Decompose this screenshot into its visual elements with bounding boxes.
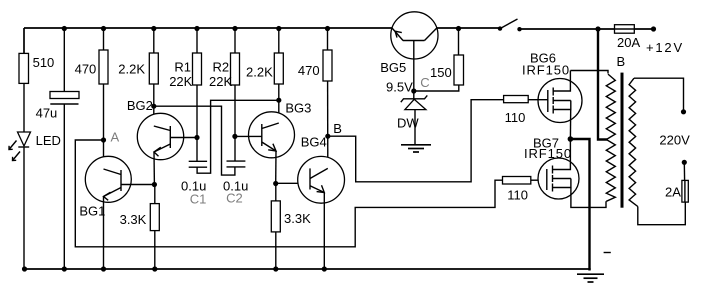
ground (zener) [401,144,431,146]
wire 470#2 to node B / BG4 collector [327,81,329,168]
junction BG2 base on R1 lead [194,135,199,140]
wire BG1 emitter to bottom rail [103,197,105,270]
junction dots on rails [62,26,67,31]
fuse 2A [682,180,688,202]
wire +12V rail to primary center tap (thick) [595,26,600,31]
wire rail to 2.2K [153,28,155,53]
svg-text:3.3K: 3.3K [284,211,311,226]
node N1 (BG6 source / BG7 drain) [568,136,574,142]
svg-text:510: 510 [33,55,55,70]
svg-text:9.5V: 9.5V [386,80,413,95]
wire BG2 base [170,137,197,139]
svg-text:DW: DW [397,116,419,131]
resistor 150 [454,55,464,85]
wire BG6 drain to transformer primary top [570,71,608,74]
ground (main) [577,273,604,275]
resistor 470 R3 [99,50,108,84]
wire BG5 base to node C [413,41,415,92]
svg-text:C: C [420,75,429,90]
wire BG1 base to BG2 emitter junction [121,184,154,186]
transformer T1 secondary winding [629,78,638,206]
LED D1 [18,132,31,146]
wire C2 bottom riser to BG2 collector [154,106,235,175]
node B [325,134,330,139]
wire junction to 3.3K [154,185,156,204]
LED emission arrows [9,141,17,150]
wire top rail (left of BG5) [23,28,25,53]
wire 3.3K to bottom rail [154,231,156,269]
wire 3.3K#2 to bottom rail [275,232,277,269]
MOSFET BG7 IRF150 [538,158,579,199]
wire junction to 3.3K #2 [275,184,277,201]
wire R1 to C1 top / BG2 base junction [196,85,198,161]
wire zener to ground [414,110,416,144]
svg-text:BG3: BG3 [285,101,311,116]
wire N1 to ground (thick) [570,139,589,271]
wire top rail (fuse to +12V terminal) [634,28,653,30]
resistor 470 #2 [323,50,332,81]
svg-text:IRF150: IRF150 [524,146,572,161]
svg-text:BG2: BG2 [127,98,153,113]
wire BG3 emitter down [275,151,277,184]
junction BG3 base on R2 lead [232,134,237,139]
svg-text:IRF150: IRF150 [522,63,570,78]
svg-text:+12V: +12V [646,40,684,55]
fuse 20A [615,25,635,34]
wire 510 to LED [23,83,25,132]
svg-text:R2: R2 [213,60,230,75]
junction BG3 emitter / BG4 base / 3.3K#2 [273,181,278,186]
svg-text:BG5: BG5 [380,60,406,75]
wire R2 to C2 top / BG3 base junction [234,85,236,161]
svg-text:LED: LED [36,133,61,148]
svg-text:A: A [111,130,120,145]
wire secondary bottom to 2A fuse [638,202,686,225]
transistor BG2 [137,113,183,159]
svg-text:BG4: BG4 [301,135,327,150]
svg-text:47u: 47u [36,106,58,121]
transistor BG5 [391,12,438,59]
resistor 110 #1 (BG6 gate) [504,96,529,103]
MOSFET BG6 IRF150 [538,79,582,123]
wire node B to 110#1 (BG6 gate) [328,100,504,182]
resistor 2.2K #1 [149,53,158,84]
svg-text:B: B [617,54,626,69]
wire bottom ground rail [24,268,591,270]
svg-text:150: 150 [430,65,452,80]
220V lower terminal [682,160,687,165]
wire 150 top to rail [458,28,460,55]
junction C1 wire on 2.2K#2 lead [276,98,281,103]
wire node A to 110#2 (BG7 gate) [75,140,502,247]
wire 2.2K#2 to BG3 collector [278,84,280,123]
svg-text:C2: C2 [226,191,243,206]
junction C2 cross-wire on 2.2K lead [151,104,156,109]
resistor R2 22K [231,53,240,85]
wire rail to R1 [196,28,198,53]
svg-text:470: 470 [298,63,320,78]
wire BG4 base [276,182,310,184]
svg-text:B: B [333,121,342,136]
svg-text:20A: 20A [617,35,640,50]
wire BG3 base [235,135,262,137]
wire rail to 2.2K #2 [278,28,280,53]
wire top rail (BG5 to switch) [437,27,500,29]
wire 2.2K to BG2 collector [153,84,155,126]
svg-text:3.3K: 3.3K [120,212,147,227]
wire BG4 emitter to bottom rail [323,193,325,270]
+12V terminal [651,26,656,31]
svg-text:110: 110 [505,110,526,125]
svg-text:2A: 2A [665,185,681,200]
transformer T1 primary winding [606,74,615,201]
wire BG2 emitter down to junction [153,152,155,185]
svg-text:2.2K: 2.2K [118,62,145,77]
node A [101,137,106,142]
wire 470 to node A / BG1 collector [103,84,105,169]
switch S1 [498,26,502,30]
wire rail to 470 [103,28,105,50]
wire node C to 150 bottom [414,85,459,91]
resistor R1 22K [193,53,202,85]
capacitor C2 0.1u [227,160,246,162]
transistor BG4 [298,156,345,203]
transistor BG3 [249,112,295,158]
zener DW [413,91,415,99]
wire top rail (switch to fuse) [520,28,615,30]
minus terminal mark [604,252,611,254]
resistor 3.3K #2 [271,201,280,232]
svg-text:C1: C1 [190,192,207,207]
wire BG7 source to transformer primary bottom [571,188,606,208]
svg-text:220V: 220V [659,133,690,148]
resistor 3.3K #1 [150,204,159,231]
transformer core [621,73,624,208]
node C [411,88,416,93]
wire rail to R2 [234,28,236,53]
resistor 2.2K #2 [274,53,283,84]
svg-text:110: 110 [507,188,528,203]
svg-text:22K: 22K [209,74,232,89]
wire LED to bottom rail [23,147,25,269]
resistor 510 [19,53,29,83]
svg-text:22K: 22K [169,74,192,89]
wire C1 bottom riser to BG3 collector [197,100,279,173]
junction BG1 base / BG2 emitter / 3.3K [152,182,157,187]
wire rail to 470 #2 [327,28,329,50]
svg-text:R1: R1 [174,60,191,75]
wire secondary top to 220V terminal [634,78,684,112]
svg-text:BG1: BG1 [79,204,105,219]
wire 47u to bottom rail [63,104,65,269]
svg-text:470: 470 [75,62,97,77]
resistor 110 #2 (BG7 gate) [503,177,531,185]
capacitor C1 0.1u [189,160,207,162]
capacitor 47u [50,92,79,99]
svg-text:2.2K: 2.2K [246,65,273,80]
transistor BG1 [85,156,131,202]
wire rail to 47u [63,28,65,92]
